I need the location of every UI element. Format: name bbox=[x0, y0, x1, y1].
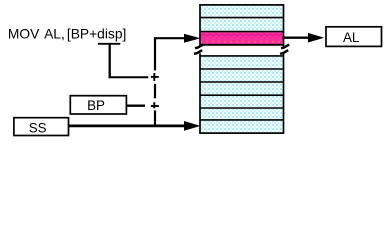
svg-text:[BP+disp]: [BP+disp] bbox=[67, 27, 126, 42]
svg-text:MOV: MOV bbox=[8, 27, 40, 42]
svg-text:AL: AL bbox=[343, 30, 359, 45]
svg-text:AL,: AL, bbox=[44, 27, 65, 42]
svg-text:SS: SS bbox=[29, 120, 47, 135]
svg-text:BP: BP bbox=[87, 98, 105, 113]
